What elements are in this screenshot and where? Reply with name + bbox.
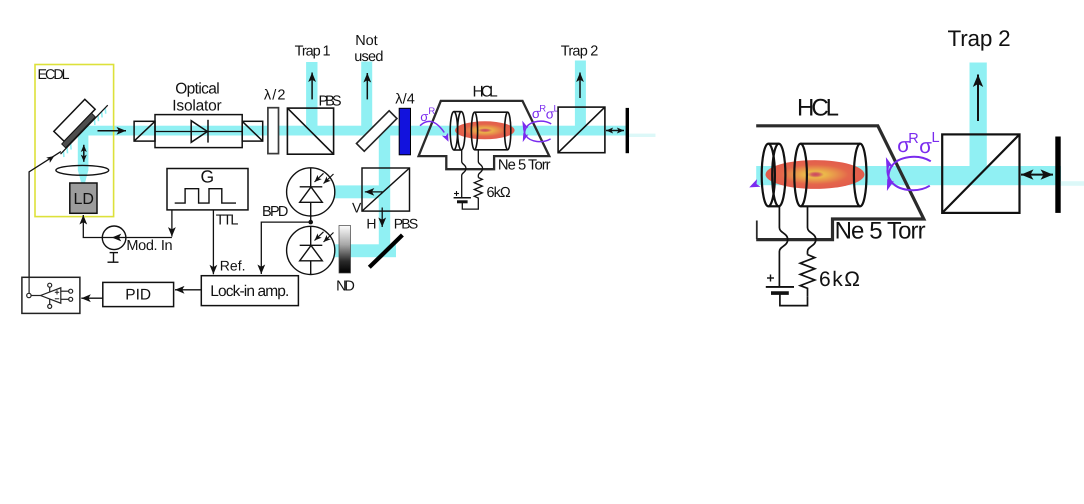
svg-text:G: G: [201, 166, 215, 186]
svg-text:HCL: HCL: [473, 84, 499, 101]
svg-text:Isolator: Isolator: [172, 98, 221, 115]
svg-text:ECDL: ECDL: [38, 67, 70, 83]
svg-text:λ/2: λ/2: [264, 88, 286, 104]
svg-text:Not: Not: [355, 33, 377, 49]
svg-text:Trap 2: Trap 2: [561, 43, 599, 59]
svg-text:PBS: PBS: [319, 94, 342, 110]
svg-text:R: R: [908, 131, 918, 147]
svg-text:TTL: TTL: [216, 213, 239, 229]
svg-text:Trap 1: Trap 1: [295, 44, 331, 60]
svg-text:Ne 5 Torr: Ne 5 Torr: [498, 158, 551, 174]
svg-text:PBS: PBS: [394, 215, 419, 231]
svg-text:PID: PID: [125, 286, 151, 303]
svg-text:R: R: [428, 106, 435, 117]
svg-text:σ: σ: [919, 135, 932, 158]
svg-text:used: used: [354, 49, 383, 65]
svg-text:Mod. In: Mod. In: [126, 238, 172, 254]
svg-text:λ/4: λ/4: [395, 91, 415, 107]
svg-text:H: H: [366, 215, 376, 231]
svg-text:Lock-in amp.: Lock-in amp.: [210, 283, 289, 300]
svg-text:Optical: Optical: [175, 81, 220, 98]
svg-text:Ref.: Ref.: [220, 258, 246, 274]
svg-text:LD: LD: [74, 191, 94, 208]
svg-text:6kΩ: 6kΩ: [819, 268, 860, 291]
svg-text:Ne 5 Torr: Ne 5 Torr: [835, 218, 926, 245]
svg-text:V: V: [352, 200, 362, 216]
svg-text:ND: ND: [336, 278, 355, 294]
svg-text:6kΩ: 6kΩ: [487, 185, 511, 201]
svg-text:Trap 2: Trap 2: [948, 26, 1011, 51]
svg-text:HCL: HCL: [797, 95, 839, 122]
svg-text:L: L: [932, 130, 940, 146]
svg-text:BPD: BPD: [262, 204, 288, 220]
